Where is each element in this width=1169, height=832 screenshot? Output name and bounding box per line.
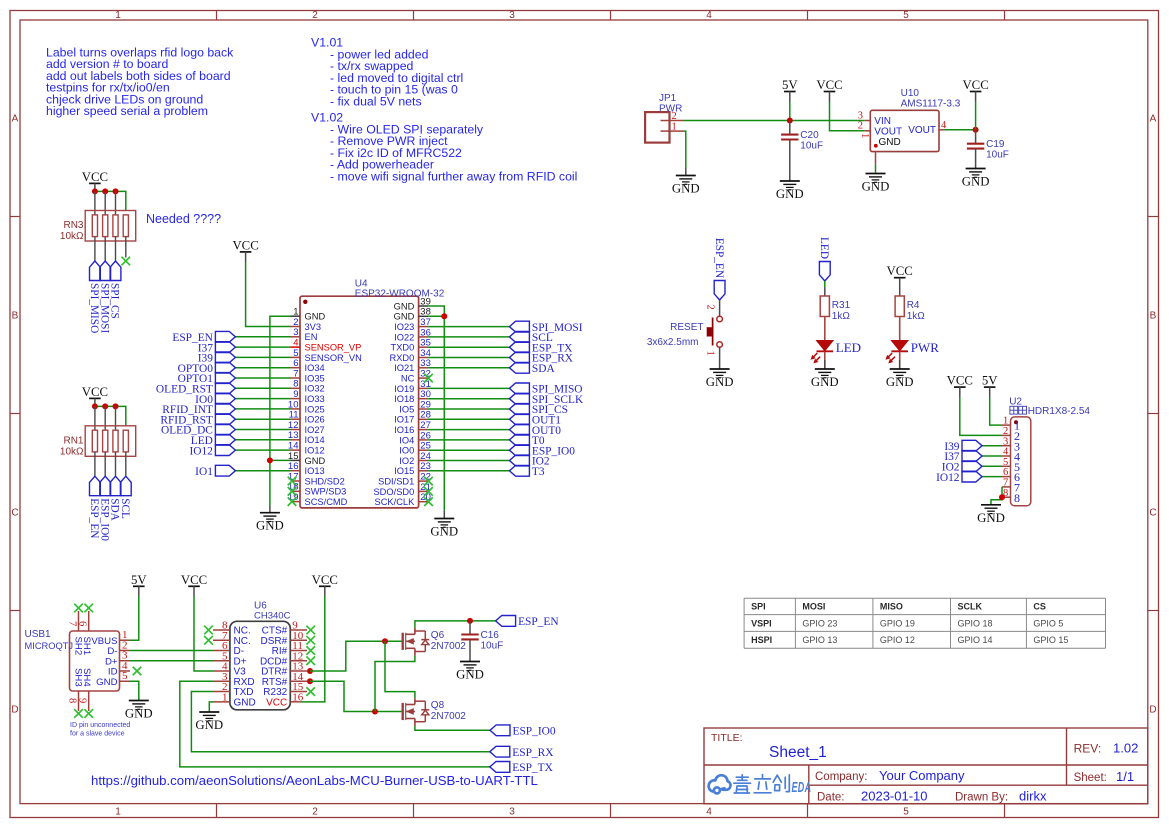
wire button to GND — [719, 347, 721, 369]
net flag ESP_TX to U4 pin 35 — [428, 342, 573, 355]
net flag I37 to U4 pin 4 — [198, 342, 291, 355]
svg-text:Q6: Q6 — [431, 630, 445, 641]
net flag SCL to U4 pin 36 — [428, 332, 553, 345]
connector USB1 MICROQTJ body — [25, 629, 120, 691]
power 5V USB — [131, 573, 147, 597]
U4 pin 1 (GND) — [291, 307, 326, 322]
net flag T0 to U4 pin 26 — [428, 435, 545, 448]
connector JP1 — [645, 93, 683, 143]
U2 pin 8 — [1002, 488, 1020, 505]
svg-text:2: 2 — [312, 807, 318, 818]
net flag I37 to U2 pin 4 — [944, 451, 1002, 464]
wire Q6 gate net to Q8 drain — [385, 641, 415, 698]
svg-text:B: B — [12, 311, 19, 322]
U4 pin 26 (IO4) — [399, 430, 431, 445]
U4 pin 24 (IO2) — [399, 451, 431, 466]
svg-text:GND: GND — [195, 718, 223, 732]
svg-text:IO4: IO4 — [399, 435, 414, 445]
svg-text:GPIO 5: GPIO 5 — [1033, 618, 1063, 628]
svg-text:GND: GND — [811, 375, 839, 389]
svg-text:https://github.com/aeonSolutio: https://github.com/aeonSolutions/AeonLab… — [91, 773, 538, 788]
U4 pin 32 (NC) — [401, 369, 431, 384]
svg-text:1kΩ: 1kΩ — [832, 311, 851, 322]
svg-text:IO26: IO26 — [305, 415, 325, 425]
svg-text:VCC: VCC — [312, 573, 338, 587]
svg-text:GND: GND — [886, 375, 914, 389]
ground USB1 — [125, 701, 153, 721]
U6 pin 4 (V3) — [213, 661, 246, 678]
no-connect X U4 pins 32 20 21 22 — [424, 374, 433, 383]
svg-text:Sheet_1: Sheet_1 — [769, 744, 827, 761]
svg-text:IO5: IO5 — [399, 404, 414, 414]
svg-text:SENSOR_VN: SENSOR_VN — [305, 353, 362, 363]
svg-text:VCC: VCC — [82, 170, 108, 184]
wire VCC to U6 V3 — [194, 596, 213, 671]
svg-text:JP1: JP1 — [659, 93, 677, 104]
svg-text:IO35: IO35 — [305, 373, 325, 383]
capacitor C16 10uF — [461, 630, 503, 652]
ground U10 — [862, 174, 890, 194]
power VCC RN1 — [82, 385, 108, 409]
svg-text:2: 2 — [672, 111, 677, 122]
wire to C20 — [789, 121, 791, 135]
wire U6 TXD to ESP_RX — [191, 692, 489, 752]
svg-text:GND: GND — [394, 312, 415, 322]
svg-text:5V: 5V — [131, 573, 147, 587]
svg-text:VCC: VCC — [887, 264, 913, 278]
svg-text:Date:: Date: — [817, 792, 845, 804]
U4 pin 3 (EN) — [291, 327, 318, 342]
svg-text:VIN: VIN — [874, 116, 891, 127]
wire LED1 to GND — [824, 352, 826, 370]
svg-text:SCS/CMD: SCS/CMD — [305, 497, 348, 507]
net flag ESP_RX to U4 pin 34 — [428, 352, 574, 365]
svg-text:VCC: VCC — [816, 78, 842, 92]
svg-text:9: 9 — [77, 698, 88, 703]
power VCC U4 — [232, 238, 258, 262]
svg-text:2: 2 — [704, 305, 715, 310]
U4 pin 39 (GND) — [394, 296, 431, 311]
title block Company — [815, 768, 965, 783]
net flag T3 to U4 pin 23 — [428, 465, 545, 478]
U6 pin 7 (NC.) — [213, 630, 251, 647]
svg-text:GPIO 15: GPIO 15 — [1033, 635, 1068, 645]
USB1 pin 4 (ID) — [108, 660, 130, 678]
svg-text:T3: T3 — [532, 466, 545, 478]
title block REV 1.02 — [1074, 741, 1139, 756]
U4 pin 10 (IO25) — [288, 399, 325, 414]
junction RN3 a — [92, 188, 98, 194]
U4 pin 17 (SHD/SD2) — [288, 471, 345, 486]
U4 pin 16 (IO13) — [288, 461, 325, 476]
svg-text:6: 6 — [77, 621, 88, 626]
svg-text:GND: GND — [672, 182, 700, 196]
svg-text:3: 3 — [509, 807, 515, 818]
no-connect X USB1 shield bottom — [74, 709, 83, 718]
power VCC U2 — [947, 374, 973, 398]
svg-text:Sheet:: Sheet: — [1074, 772, 1107, 784]
net flag RFID_RST to U4 pin 11 — [160, 414, 290, 427]
U2 pin 5 — [1002, 457, 1020, 474]
svg-text:GND: GND — [862, 180, 890, 194]
svg-text:GND: GND — [394, 301, 415, 311]
svg-text:REV:: REV: — [1074, 742, 1102, 756]
svg-text:GND: GND — [305, 456, 326, 466]
U4 pin 33 (IO21) — [394, 358, 431, 373]
svg-text:IO22: IO22 — [394, 332, 414, 342]
wire Q8 source to ESP_IO0 — [415, 726, 490, 730]
net flag ESP_IO0 RN1 — [98, 476, 110, 541]
junction U6 DTR pin13 — [307, 668, 313, 674]
svg-text:R31: R31 — [832, 300, 851, 311]
led PWR LED — [886, 340, 940, 363]
svg-text:SPI_CS: SPI_CS — [109, 283, 121, 319]
title block Date Drawn By — [817, 789, 1047, 804]
svg-text:GPIO 12: GPIO 12 — [880, 635, 915, 645]
svg-text:MICROQTJ: MICROQTJ — [25, 641, 74, 651]
svg-text:Drawn By:: Drawn By: — [955, 792, 1008, 804]
wire DTR to Q6 gate — [310, 641, 403, 671]
U4 pin 19 (SCS/CMD) — [288, 492, 348, 507]
svg-text:SDI/SD1: SDI/SD1 — [378, 477, 414, 487]
wire U10 VOUT pin4 to C19/VCC — [945, 129, 976, 131]
svg-text:C19: C19 — [986, 139, 1005, 150]
power VCC right — [962, 78, 988, 102]
no-connect X RN3 pin — [122, 257, 131, 266]
svg-text:R4: R4 — [907, 300, 920, 311]
svg-text:higher speed serial a problem: higher speed serial a problem — [46, 104, 208, 118]
svg-text:IO15: IO15 — [394, 466, 414, 476]
power 5V top — [782, 78, 798, 102]
led LED1 — [811, 340, 861, 363]
U4 pin 6 (IO34) — [291, 358, 325, 373]
svg-text:SH1: SH1 — [81, 637, 92, 656]
svg-text:GPIO 13: GPIO 13 — [802, 635, 837, 645]
svg-text:ESP_IO0: ESP_IO0 — [98, 498, 110, 541]
no-connect X U4 pins 17-19 — [288, 477, 297, 486]
svg-text:VCC: VCC — [962, 78, 988, 92]
net flag SCL RN1 — [119, 476, 131, 519]
svg-text:EDA: EDA — [792, 779, 812, 796]
wire flag to R31 — [824, 281, 826, 287]
svg-text:VCC: VCC — [947, 374, 973, 388]
net flag IO2 to U2 pin 5 — [942, 461, 1002, 474]
resistor R4 1k — [895, 296, 925, 322]
wire R31 to LED1 — [824, 317, 826, 341]
svg-text:LED: LED — [818, 237, 830, 259]
transistor Q8 2N7002 — [403, 698, 467, 726]
U4 pin 23 (IO15) — [394, 461, 431, 476]
svg-text:5: 5 — [122, 670, 128, 682]
ground C20 — [776, 181, 804, 201]
wire C20 to GND — [789, 140, 791, 182]
svg-text:RESET: RESET — [670, 322, 703, 333]
svg-text:2N7002: 2N7002 — [431, 641, 466, 652]
no-connect X USB1 shield top — [74, 604, 83, 613]
svg-text:IO14: IO14 — [305, 435, 325, 445]
U4 pin 2 (3V3) — [291, 317, 322, 332]
resistor R31 1k — [820, 296, 850, 322]
wire C16 to GND — [469, 639, 471, 661]
svg-text:7: 7 — [67, 621, 78, 626]
U6 pin 8 (NC.) — [213, 620, 251, 637]
svg-text:AMS1117-3.3: AMS1117-3.3 — [901, 99, 961, 110]
wire 5V symbol to rail — [789, 102, 791, 121]
svg-text:10uF: 10uF — [986, 150, 1009, 161]
svg-text:IO1: IO1 — [195, 466, 213, 478]
svg-text:GND: GND — [456, 668, 484, 682]
U2 pin 6 — [1002, 467, 1020, 484]
svg-text:MOSI: MOSI — [802, 602, 825, 612]
svg-text:SDA: SDA — [109, 498, 121, 521]
ic U6 CH340C body — [230, 600, 291, 710]
svg-text:IO12: IO12 — [936, 472, 960, 484]
svg-text:ESP_EN: ESP_EN — [88, 498, 100, 538]
wire U4 GND left rail — [270, 316, 291, 506]
net flag ESP_IO0 right — [490, 725, 556, 738]
U4 pin 13 (IO14) — [288, 430, 325, 445]
wire U10 GND pin1 to ground — [875, 164, 877, 172]
svg-text:TXD0: TXD0 — [391, 343, 415, 353]
svg-text:VCC: VCC — [181, 573, 207, 587]
U4 pin 30 (IO18) — [394, 389, 431, 404]
net flag ESP_IO0 to U4 pin 25 — [428, 445, 575, 458]
USB1 pin 1 (VBUS) — [91, 629, 130, 647]
table SPI GPIO assignments — [744, 598, 1105, 648]
svg-text:IO23: IO23 — [394, 322, 414, 332]
svg-text:dirkx: dirkx — [1019, 789, 1047, 804]
net flag SPI_CS — [109, 261, 121, 319]
svg-text:IO12: IO12 — [189, 445, 213, 457]
U4 pin 5 (SENSOR_VN) — [291, 348, 362, 363]
svg-text:IO33: IO33 — [305, 394, 325, 404]
net flag RFID_INT to U4 pin 10 — [162, 404, 290, 417]
net flag IO12 to U2 pin 6 — [936, 471, 1002, 484]
svg-text:CS: CS — [1033, 602, 1046, 612]
svg-text:10kΩ: 10kΩ — [60, 447, 84, 458]
svg-text:1: 1 — [115, 807, 121, 818]
svg-text:A: A — [12, 114, 19, 125]
svg-text:2: 2 — [858, 121, 863, 132]
svg-text:GND: GND — [430, 525, 458, 539]
button RESET 3x6x2.5mm — [647, 305, 723, 356]
U6 pin 1 (GND) — [213, 691, 256, 708]
USB1 shield pins 7 6 top — [67, 611, 89, 631]
svg-text:IO27: IO27 — [305, 425, 325, 435]
svg-text:4: 4 — [706, 10, 712, 21]
ground U6 — [195, 712, 223, 732]
svg-text:8: 8 — [1014, 491, 1020, 505]
svg-text:GND: GND — [977, 511, 1005, 525]
junction Q6 gate net — [382, 638, 388, 644]
net flag ESP_EN to U4 pin 3 — [172, 331, 290, 344]
net flag OLED_RST to U4 pin 8 — [156, 383, 291, 396]
ground LED1 — [811, 369, 839, 389]
wire VCC right down — [975, 102, 977, 130]
logo JLCEDA characters — [734, 775, 790, 793]
svg-text:ESP_IO0: ESP_IO0 — [513, 726, 556, 738]
U4 pin 9 (IO33) — [291, 389, 325, 404]
svg-text:10uF: 10uF — [800, 141, 823, 152]
junction RN1 b — [102, 403, 108, 409]
svg-text:VCC: VCC — [266, 697, 287, 708]
wire U4 GND right rail — [428, 306, 444, 510]
wire 5V to USB1 VBUS — [130, 596, 139, 640]
net flag IO2 to U4 pin 24 — [428, 455, 550, 468]
svg-text:GPIO 19: GPIO 19 — [880, 618, 915, 628]
net flag OUT1 to U4 pin 28 — [428, 414, 561, 427]
svg-text:RXD0: RXD0 — [389, 353, 414, 363]
U2 pin 2 — [1002, 426, 1020, 443]
title block Sheet 1/1 — [1074, 769, 1134, 784]
U4 pin 38 (GND) — [394, 307, 431, 322]
svg-text:LED: LED — [836, 340, 861, 355]
wire USB D- to U6 D- — [130, 649, 213, 651]
wire U4 pin15 to GND rail — [270, 459, 291, 461]
U6 pin 10 (DSR#) — [261, 630, 307, 647]
svg-text:VOUT: VOUT — [874, 126, 902, 137]
USB1 pin 3 (D+) — [105, 650, 130, 668]
svg-text:SCLK: SCLK — [958, 602, 983, 612]
svg-text:GND: GND — [776, 187, 804, 201]
wire LED2 to GND — [899, 352, 901, 370]
U4 pin 11 (IO26) — [289, 410, 325, 425]
svg-text:IO16: IO16 — [394, 425, 414, 435]
svg-text:ESP_EN: ESP_EN — [518, 616, 559, 628]
text ID pin note — [70, 722, 130, 738]
svg-text:GND: GND — [706, 375, 734, 389]
svg-text:SENSOR_VP: SENSOR_VP — [305, 343, 362, 353]
net flag ESP_EN RN1 — [88, 476, 100, 538]
junction 5V/C20 — [787, 118, 793, 124]
U2 pin 3 — [1002, 436, 1020, 453]
ground JP1 — [672, 176, 700, 196]
wire VCC RN1 bus — [95, 406, 126, 425]
svg-text:GND: GND — [962, 175, 990, 189]
net flag IO1 to U4 pin 16 — [195, 465, 290, 478]
wire U6 RXD to ESP_TX — [180, 681, 490, 767]
svg-text:- fix dual 5V nets: - fix dual 5V nets — [330, 94, 422, 108]
U2 pin 7 — [1002, 478, 1020, 495]
net flag SPI_MISO — [88, 261, 100, 333]
net flag ESP_RX right — [490, 746, 554, 759]
svg-text:5: 5 — [903, 10, 909, 21]
svg-text:SH4: SH4 — [81, 668, 92, 687]
net flag LED top — [818, 237, 830, 281]
svg-text:SHD/SD2: SHD/SD2 — [305, 476, 345, 486]
svg-text:GND: GND — [305, 312, 326, 322]
title block frame — [704, 728, 1148, 804]
U4 pin 18 (SWP/SD3) — [288, 482, 346, 497]
svg-text:Your Company: Your Company — [879, 768, 965, 783]
svg-text:1.02: 1.02 — [1113, 741, 1138, 756]
wire flag to button — [719, 300, 721, 316]
svg-text:MISO: MISO — [880, 602, 903, 612]
logo JLCEDA cloud — [709, 775, 731, 793]
U6 pin 6 (D-) — [213, 640, 244, 657]
wire Q8 gate net to Q6 source — [375, 656, 415, 712]
svg-text:IO12: IO12 — [305, 446, 325, 456]
svg-text:SPI_MOSI: SPI_MOSI — [98, 283, 110, 333]
U4 pin 8 (IO32) — [291, 379, 325, 394]
svg-text:IO17: IO17 — [394, 415, 414, 425]
svg-text:5V: 5V — [782, 78, 798, 92]
capacitor C19 10uF — [967, 139, 1009, 161]
U6 pin 15 (R232) — [263, 681, 307, 698]
net flag SPI_SCLK to U4 pin 30 — [428, 393, 584, 406]
wire JP1 pin1 to GND — [683, 131, 686, 168]
wire C19 to GND — [975, 149, 977, 169]
junction U4 GND right — [441, 313, 447, 319]
svg-text:SPI: SPI — [751, 602, 766, 612]
capacitor C20 10uF — [781, 130, 823, 152]
svg-text:1/1: 1/1 — [1116, 769, 1134, 784]
U6 pin 2 (TXD) — [213, 681, 254, 698]
net flag OUT0 to U4 pin 27 — [428, 424, 561, 437]
junction RN1 a — [92, 403, 98, 409]
svg-text:IO34: IO34 — [305, 363, 325, 373]
net flag SPI_CS to U4 pin 29 — [428, 404, 568, 417]
svg-text:RN3: RN3 — [63, 220, 83, 231]
U6 pin 14 (RTS#) — [262, 671, 307, 688]
wire R4 to LED2 — [899, 317, 901, 341]
net flag ESP_TX right — [490, 762, 554, 775]
U4 pin 15 (GND) — [288, 451, 326, 466]
U6 pin 3 (RXD) — [213, 671, 255, 688]
svg-text:IO19: IO19 — [394, 384, 414, 394]
svg-text:- move wifi signal further awa: - move wifi signal further away from RFI… — [330, 169, 577, 183]
USB1 shield pins 8 9 bottom — [67, 691, 89, 711]
svg-text:C: C — [11, 508, 18, 519]
svg-text:Needed ????: Needed ???? — [146, 212, 221, 226]
junction U4 GND left — [267, 457, 273, 463]
svg-text:GPIO 14: GPIO 14 — [958, 635, 993, 645]
svg-text:SDO/SD0: SDO/SD0 — [373, 487, 414, 497]
junction Q8 gate net — [372, 709, 378, 715]
svg-text:D: D — [11, 705, 18, 716]
svg-text:GND: GND — [96, 677, 117, 688]
net flag SPI_MISO to U4 pin 31 — [428, 383, 582, 396]
ground U4 left — [256, 513, 284, 533]
wire USB D+ to U6 D+ — [130, 660, 213, 662]
svg-text:VCC: VCC — [82, 385, 108, 399]
svg-text:ESP_RX: ESP_RX — [512, 747, 554, 759]
svg-text:IO13: IO13 — [305, 466, 325, 476]
svg-text:HDR1X8-2.54: HDR1X8-2.54 — [1028, 406, 1091, 417]
net flag IO0 to U4 pin 9 — [195, 393, 290, 406]
svg-text:C20: C20 — [800, 130, 819, 141]
svg-text:3: 3 — [509, 10, 515, 21]
svg-text:SCK/CLK: SCK/CLK — [375, 497, 416, 507]
power VCC U6 left — [181, 573, 207, 597]
net flag OPTO1 to U4 pin 7 — [178, 373, 291, 386]
U4 pin 7 (IO35) — [291, 368, 325, 383]
svg-text:USB1: USB1 — [25, 629, 52, 640]
logo EDA text — [792, 779, 812, 796]
U4 pin 14 (IO12) — [288, 441, 325, 456]
net flag SPI_MOSI to U4 pin 37 — [428, 321, 583, 334]
svg-text:5V: 5V — [982, 374, 998, 388]
svg-text:VOUT: VOUT — [908, 125, 936, 136]
note text block top-left — [46, 46, 234, 119]
svg-text:ID pin unconnected: ID pin unconnected — [70, 722, 130, 729]
power 5V U2 — [982, 374, 998, 398]
U6 pin 12 (DCD#) — [260, 650, 307, 667]
resistor network RN3 10k — [60, 191, 136, 261]
wire VCC to U10 VOUT pin2 — [830, 102, 865, 131]
svg-text:IO18: IO18 — [394, 394, 414, 404]
svg-text:5: 5 — [903, 807, 909, 818]
